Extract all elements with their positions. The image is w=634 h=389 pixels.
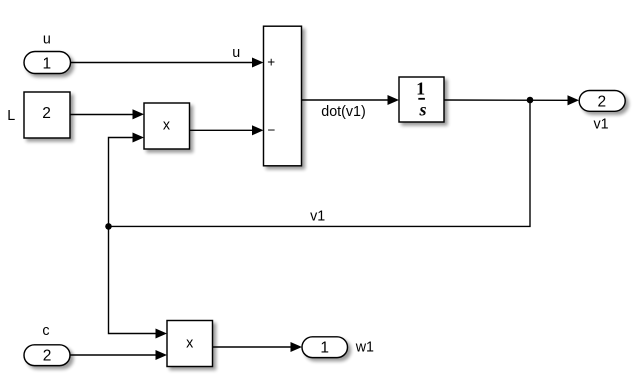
svg-text:v1: v1 <box>593 117 608 133</box>
sum block Add <box>264 26 302 166</box>
outport Out1 (w1), pin 1 <box>302 337 348 358</box>
wire In1 to Sum plus input <box>71 57 264 67</box>
product P2 <box>167 321 213 367</box>
svg-text:dot(v1): dot(v1) <box>321 104 366 120</box>
wire In2 to Product2 input 2 <box>70 350 167 360</box>
outport Out2 (v1), pin 2 <box>579 91 625 112</box>
svg-text:u: u <box>43 31 51 47</box>
svg-text:x: x <box>163 118 170 134</box>
svg-text:1: 1 <box>320 340 329 357</box>
wire Sum to Integrator <box>302 95 400 105</box>
svg-text:x: x <box>186 335 193 351</box>
junction node on feedback branch <box>105 223 112 230</box>
wire feedback branch down to Product2 input 1 <box>109 226 168 338</box>
svg-text:w1: w1 <box>355 340 374 356</box>
svg-text:s: s <box>418 100 426 120</box>
wire L to Product1 input 1 <box>70 109 144 119</box>
wire Product2 to Out1 <box>213 342 303 352</box>
integrator 1/s <box>399 77 444 122</box>
inport In1 (u), pin 1 <box>24 52 71 74</box>
svg-text:2: 2 <box>42 105 51 122</box>
svg-text:v1: v1 <box>310 208 325 224</box>
svg-text:−: − <box>268 123 276 138</box>
constant L, value 2 <box>24 92 70 138</box>
product P1 <box>144 103 190 149</box>
svg-text:2: 2 <box>597 93 606 110</box>
svg-text:+: + <box>267 54 275 69</box>
inport In2 (c), pin 2 <box>24 345 70 366</box>
junction node at integrator output <box>527 97 534 104</box>
wire Integrator to Out2 <box>444 95 579 105</box>
wire Product1 to Sum minus input <box>190 125 264 135</box>
wire feedback branch up to Product1 input 2 <box>109 132 145 226</box>
svg-text:2: 2 <box>43 348 52 365</box>
svg-text:1: 1 <box>416 79 425 99</box>
wire feedback v1 from junction down and left <box>109 100 531 226</box>
svg-text:1: 1 <box>42 55 51 72</box>
svg-text:c: c <box>42 323 49 339</box>
svg-text:L: L <box>7 108 15 124</box>
svg-text:u: u <box>232 45 240 61</box>
